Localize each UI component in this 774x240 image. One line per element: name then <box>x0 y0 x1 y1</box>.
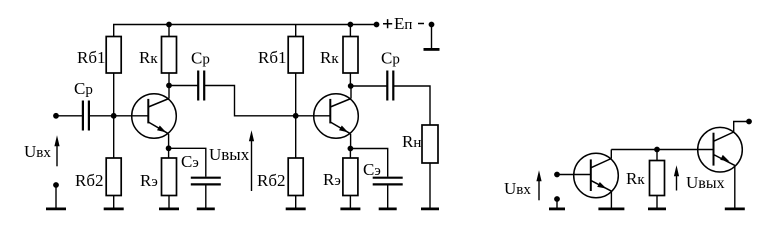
ground: input (left circuit) <box>55 185 57 208</box>
wire: emitter to Ce1 <box>169 148 206 176</box>
resistor Rk (stage 1) <box>162 37 177 74</box>
transistor VT1 <box>132 94 177 139</box>
capacitor Cp coupling (stage 2 output) <box>386 71 388 101</box>
wire: VT3 collector rail to VT4 base <box>611 149 713 151</box>
node: base node stage 2 <box>293 113 299 119</box>
resistor Rk (right) <box>650 161 665 196</box>
wire: VT4 collector to output terminal <box>734 122 749 133</box>
ground: Re1 <box>168 196 170 208</box>
capacitor Cp coupling (stage 1 to 2) <box>197 71 199 101</box>
svg-text:Rб2: Rб2 <box>257 171 286 190</box>
resistor Rb2 (stage 1 lower) <box>106 158 121 196</box>
ground: Rn <box>429 163 431 208</box>
svg-text:Еп: Еп <box>394 14 412 33</box>
arrow: Uvyx left <box>251 136 253 191</box>
svg-text:Uвых: Uвых <box>686 173 725 192</box>
node: emitter node stage 2 <box>348 146 354 152</box>
svg-text:Uвых: Uвых <box>209 145 250 164</box>
capacitor Cp input (stage 1) <box>82 101 84 131</box>
node: input terminal bottom (right) <box>554 196 560 202</box>
node: input terminal bottom (left circuit) <box>53 182 59 188</box>
node: input terminal top (right) <box>554 172 560 178</box>
ground: Rk right <box>656 196 658 208</box>
node: rail end terminal <box>374 22 380 28</box>
resistor Rn load <box>422 125 438 163</box>
svg-text:Rб2: Rб2 <box>75 171 104 190</box>
node: emitter node stage 1 <box>166 145 172 151</box>
transistor VT4 <box>698 127 743 172</box>
capacitor Ce (stage 1) <box>191 177 221 179</box>
svg-text:Rк: Rк <box>626 169 645 188</box>
svg-text:Uвх: Uвх <box>504 179 531 198</box>
svg-text:Rб1: Rб1 <box>258 48 287 67</box>
node: base node stage 1 <box>111 113 117 119</box>
node: input terminal top (left circuit) <box>53 113 59 119</box>
resistor Rb2 (stage 2 lower) <box>288 158 303 196</box>
ground: VT3 emitter <box>610 191 612 208</box>
svg-text:Ср: Ср <box>381 49 400 68</box>
wire: +Ep supply rail <box>114 25 377 37</box>
ground: Ce2 <box>387 186 389 208</box>
svg-text:Rэ: Rэ <box>140 171 158 190</box>
wire: Cp to base node to transistor <box>89 115 148 117</box>
node: output terminal (right) <box>746 119 752 125</box>
label: plus sign of supply <box>383 19 392 28</box>
arrow: Uvx left <box>56 141 58 166</box>
node: rail junction at Rk2 <box>348 22 354 28</box>
transistor VT2 <box>314 94 359 139</box>
wire: input to Cp <box>56 115 83 117</box>
wire: coupling cap to stage 2 base <box>204 86 330 116</box>
svg-text:Ср: Ср <box>74 79 93 98</box>
node: rail junction at Rk1 <box>166 22 172 28</box>
resistor Rb1 (stage 2) <box>288 37 303 74</box>
ground: input right <box>556 199 558 208</box>
svg-text:Ср: Ср <box>191 49 210 68</box>
ground: Rb2 <box>113 196 115 208</box>
wire: collector 1 to coupling cap <box>169 85 198 87</box>
svg-text:Uвх: Uвх <box>24 142 51 161</box>
wire: coupling cap 2 to Rn <box>393 86 430 125</box>
resistor Rb1 (stage 1) <box>106 37 121 74</box>
ground: Ce1 <box>205 186 207 208</box>
node: Rk top junction (right) <box>654 147 660 153</box>
svg-text:Rн: Rн <box>402 132 421 151</box>
transistor VT3 <box>574 153 619 198</box>
arrow: Uvx right <box>538 176 540 200</box>
ground: VT4 emitter <box>734 165 736 207</box>
resistor Re (stage 1) <box>162 158 177 196</box>
svg-text:Rэ: Rэ <box>323 170 341 189</box>
node: supply ground terminal <box>429 22 435 28</box>
svg-text:Сэ: Сэ <box>363 160 381 179</box>
ground: Rb2 stage2 <box>295 196 297 208</box>
arrow: Uvyx right <box>676 171 678 191</box>
capacitor Ce (stage 2) <box>373 177 403 179</box>
label: minus sign of supply <box>418 23 424 25</box>
node: collector node stage 2 <box>348 83 354 89</box>
wire: emitter2 to Ce2 <box>350 149 387 177</box>
wire: collector 2 to coupling cap 2 <box>351 85 388 87</box>
svg-text:Rк: Rк <box>320 48 339 67</box>
svg-text:Сэ: Сэ <box>181 152 199 171</box>
node: collector node stage 1 <box>166 83 172 89</box>
ground: Re2 <box>349 196 351 208</box>
resistor Rk (stage 2) <box>343 37 358 74</box>
svg-text:Rк: Rк <box>139 48 158 67</box>
svg-text:Rб1: Rб1 <box>77 48 106 67</box>
wire: input to VT3 base <box>557 174 591 176</box>
resistor Re (stage 2) <box>343 158 358 196</box>
ground: supply <box>431 25 433 49</box>
